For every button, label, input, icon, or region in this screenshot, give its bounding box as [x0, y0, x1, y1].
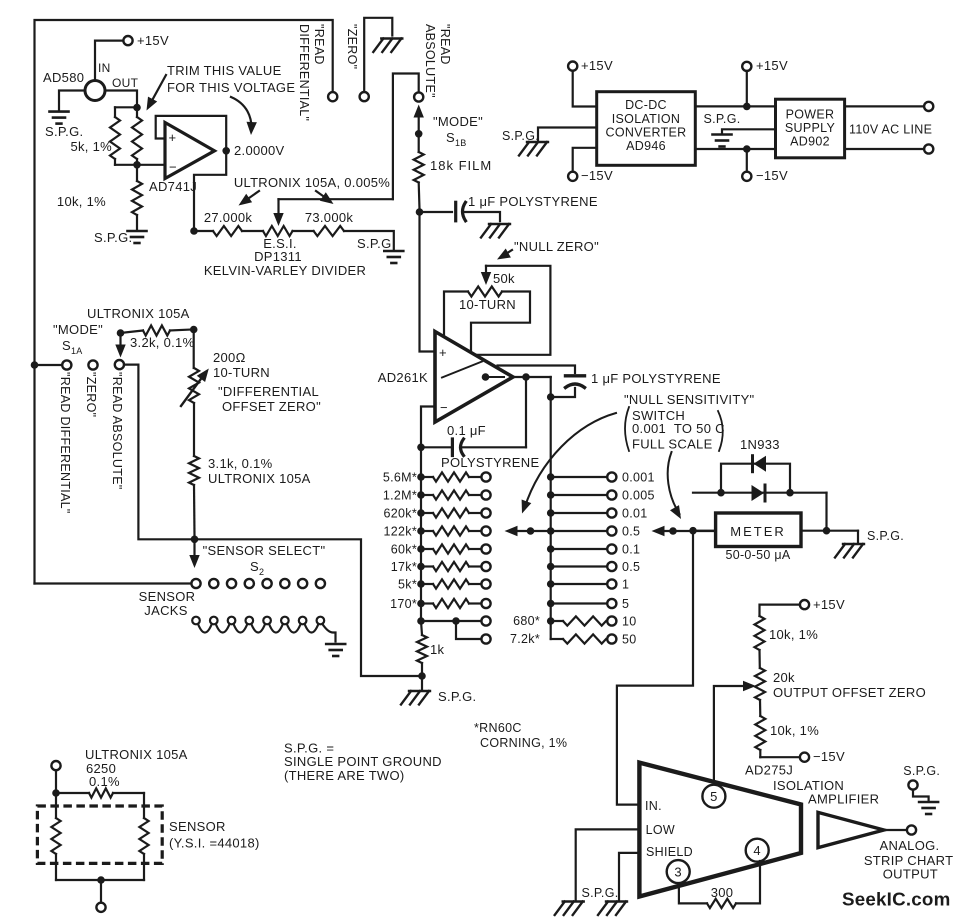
label READ ABSOLUTE vertical (top) — [423, 24, 452, 98]
svg-text:−15V: −15V — [581, 168, 613, 183]
svg-text:OUTPUT OFFSET ZERO: OUTPUT OFFSET ZERO — [773, 685, 926, 700]
ground chassis (top ZERO) — [373, 39, 402, 53]
svg-text:OUTPUT: OUTPUT — [883, 867, 938, 882]
label 1 — [622, 578, 629, 592]
svg-text:200Ω: 200Ω — [213, 350, 246, 365]
svg-text:DIFFERENTIAL": DIFFERENTIAL" — [297, 24, 311, 121]
label DP1311 — [254, 249, 302, 264]
wire +15V to AD580 IN — [95, 41, 123, 81]
label 5k 1% — [70, 139, 112, 154]
svg-text:"NULL ZERO": "NULL ZERO" — [514, 239, 599, 254]
label 620k* — [384, 507, 417, 521]
svg-text:(THERE ARE TWO): (THERE ARE TWO) — [284, 768, 405, 783]
svg-text:1: 1 — [622, 578, 629, 592]
wire AD741J inverting input — [137, 164, 165, 166]
node diode left — [717, 489, 725, 497]
wire AD261K -input — [421, 407, 435, 445]
svg-text:POWER: POWER — [786, 108, 835, 122]
svg-text:0.1 μF: 0.1 μF — [447, 423, 486, 438]
svg-text:5.6M*: 5.6M* — [383, 471, 417, 485]
wire 300 to pin4 — [736, 861, 760, 903]
resistor 300 — [707, 899, 736, 908]
wire cap to bus — [553, 388, 575, 397]
resistor 620k* ladder row — [417, 508, 490, 517]
label 110V AC LINE — [849, 123, 932, 137]
svg-text:0.1: 0.1 — [622, 543, 640, 557]
switch contact 0.5 row — [547, 526, 617, 535]
svg-text:"NULL SENSITIVITY": "NULL SENSITIVITY" — [624, 392, 755, 407]
svg-text:0.001 TO 50 C: 0.001 TO 50 C — [632, 421, 725, 436]
wire -input bus to 0.1uF — [417, 444, 451, 452]
ground chassis (SHIELD S.P.G.) — [598, 902, 627, 916]
svg-text:18k FILM: 18k FILM — [430, 158, 492, 173]
wire S1B node to AD261K +input — [420, 212, 434, 352]
ground S.P.G. (10k) — [128, 231, 147, 243]
wire output top branch — [498, 366, 576, 374]
svg-text:3: 3 — [674, 865, 682, 880]
node ladder bottom — [417, 617, 425, 625]
label 300 — [711, 885, 734, 900]
note single point ground — [284, 741, 442, 783]
label +15V (DC-DC) — [581, 58, 613, 73]
label 122k* — [384, 525, 417, 539]
annotation arrow to 73k — [316, 191, 334, 204]
label S.P.G. (iso-amp) — [582, 886, 619, 900]
switch contact 0.1 row — [547, 544, 617, 553]
wire AD580 to ground — [59, 91, 85, 111]
annotation curve to ladder wiper — [522, 413, 616, 514]
svg-text:AD741J: AD741J — [149, 179, 197, 194]
label ULTRONIX 105A 0.005% — [234, 175, 390, 190]
label AD741J — [149, 179, 197, 194]
svg-text:122k*: 122k* — [384, 525, 417, 539]
switch contact 0.001 row — [547, 472, 617, 481]
wire output down to 0.1uF — [525, 377, 527, 447]
svg-text:"MODE": "MODE" — [433, 114, 483, 129]
svg-text:"READ DIFFERENTIAL": "READ DIFFERENTIAL" — [58, 372, 72, 514]
wire output to terminal — [884, 829, 907, 831]
svg-text:OFFSET ZERO": OFFSET ZERO" — [222, 399, 321, 414]
svg-text:20k: 20k — [773, 670, 795, 685]
svg-text:"ZERO": "ZERO" — [345, 24, 359, 69]
node AD261K output — [522, 373, 530, 381]
svg-text:10: 10 — [622, 615, 637, 629]
svg-text:"MODE": "MODE" — [53, 322, 103, 337]
svg-text:1 μF POLYSTYRENE: 1 μF POLYSTYRENE — [468, 194, 598, 209]
switch S1 contact READ ABSOLUTE (top) — [414, 92, 423, 101]
svg-text:S: S — [446, 130, 455, 145]
label 10 — [622, 615, 637, 629]
meter M1 50-0-50uA — [716, 513, 801, 547]
resistor 10k 1% (upper) — [755, 616, 765, 668]
label 10-TURN — [459, 297, 516, 312]
terminal sensor top — [51, 761, 60, 770]
resistor 1.2M* ladder row — [417, 490, 490, 499]
label MODE S1B — [433, 114, 483, 148]
potentiometer 50k 10-TURN — [468, 287, 502, 297]
label S.P.G. (1k) — [438, 689, 476, 704]
svg-text:+15V: +15V — [813, 597, 845, 612]
label ISOLATION — [773, 778, 844, 793]
label 3.2k 0.1% — [130, 335, 195, 350]
node -15 rail — [743, 145, 751, 153]
svg-text:SeekIC.com: SeekIC.com — [842, 889, 950, 910]
ground S.P.G. (between boxes) — [713, 135, 732, 147]
resistor 170* ladder row — [417, 599, 490, 608]
label DIFFERENTIAL OFFSET ZERO — [218, 384, 321, 414]
terminal -15V (DC-DC) — [568, 172, 577, 181]
resistor 17k* ladder row — [417, 562, 490, 571]
label OUTPUT OFFSET ZERO — [773, 685, 926, 700]
label S.P.G. (output) — [903, 764, 940, 778]
resistor 7.2k (50 range) — [551, 634, 617, 643]
svg-text:JACKS: JACKS — [144, 603, 187, 618]
sensor right leg — [139, 793, 148, 880]
label 0.5 — [622, 525, 640, 539]
svg-text:5: 5 — [710, 789, 718, 804]
wire -15V into DC-DC — [573, 148, 597, 172]
svg-text:5: 5 — [622, 597, 629, 611]
label 1.2M* — [383, 489, 417, 503]
node 1k bottom — [418, 672, 426, 680]
label SHIELD — [646, 845, 693, 859]
resistor 5k* ladder row — [417, 579, 490, 588]
svg-text:"DIFFERENTIAL: "DIFFERENTIAL — [218, 384, 319, 399]
label 0.1 — [622, 543, 640, 557]
svg-text:ISOLATION: ISOLATION — [612, 112, 680, 126]
wire +15V supply stub — [746, 71, 748, 107]
svg-text:3.2k, 0.1%: 3.2k, 0.1% — [130, 335, 195, 350]
label 0.001 — [622, 471, 655, 485]
svg-text:1A: 1A — [71, 346, 83, 356]
resistor 18k FILM — [414, 134, 424, 209]
svg-text:−15V: −15V — [813, 749, 845, 764]
svg-text:S: S — [250, 559, 259, 574]
switch contact 5 row — [547, 599, 617, 608]
svg-text:+15V: +15V — [756, 58, 788, 73]
svg-text:ULTRONIX 105A: ULTRONIX 105A — [208, 471, 311, 486]
label 5 — [622, 597, 629, 611]
label AD275J — [745, 763, 793, 778]
label ANALOG STRIP CHART OUTPUT — [864, 838, 954, 882]
label READ DIFFERENTIAL vertical (top) — [297, 24, 326, 121]
label 0.1uF — [447, 423, 486, 438]
svg-text:S: S — [62, 338, 71, 353]
op-amp U2 AD261K — [435, 332, 513, 423]
label S.P.G. (10k) — [94, 230, 132, 245]
svg-text:S.P.G: S.P.G — [357, 236, 392, 251]
terminal S.P.G. (output) — [908, 780, 917, 789]
svg-text:*RN60C: *RN60C — [474, 721, 522, 735]
wire 0.1uF to output vertical — [463, 446, 526, 448]
ground chassis (1k S.P.G.) — [401, 691, 430, 705]
svg-text:SHIELD: SHIELD — [646, 845, 693, 859]
terminal sensor bottom — [96, 903, 105, 912]
wire 27k to divider — [242, 230, 263, 232]
wire 50k right end to offset pin — [471, 292, 530, 352]
resistor 680 (10 range) — [547, 616, 617, 625]
label 27.000k — [204, 210, 253, 225]
resistor 5k 1% — [110, 107, 120, 165]
switch S1A contact READ DIFFERENTIAL — [62, 360, 71, 369]
sensor dashed box — [37, 806, 162, 863]
svg-text:3.1k, 0.1%: 3.1k, 0.1% — [208, 456, 273, 471]
svg-text:2.0000V: 2.0000V — [234, 143, 285, 158]
svg-text:60k*: 60k* — [391, 543, 417, 557]
wiper arrow sensitivity bank — [652, 526, 715, 536]
node AD741J output — [222, 147, 230, 155]
svg-text:IN.: IN. — [645, 799, 662, 813]
svg-text:0.1%: 0.1% — [89, 774, 120, 789]
switch contact 0.01 row — [547, 508, 617, 517]
wire frame to S1A contact 1 — [35, 364, 63, 366]
svg-text:0.5: 0.5 — [622, 525, 640, 539]
svg-text:+: + — [169, 130, 177, 145]
wire KVD wiper run — [279, 198, 393, 200]
svg-text:S.P.G.: S.P.G. — [582, 886, 619, 900]
wire S2 run to 1k ground — [195, 539, 420, 676]
voltage reference AD580 — [85, 81, 105, 101]
wire READ ABSOLUTE contact to KVD wiper run — [393, 74, 419, 200]
svg-text:S.P.G.: S.P.G. — [502, 129, 539, 143]
wire pin5 to 20k wiper — [714, 686, 749, 785]
label 200ohm 10-TURN — [213, 350, 270, 380]
label S.P.G. (AD580) — [45, 124, 83, 139]
svg-text:ULTRONIX 105A: ULTRONIX 105A — [87, 306, 190, 321]
label +15V (supply) — [756, 58, 788, 73]
svg-text:DP1311: DP1311 — [254, 249, 302, 264]
ground S.P.G. (KVD) — [384, 251, 403, 263]
wire SPG into DC-DC — [538, 128, 597, 141]
svg-text:50-0-50 μA: 50-0-50 μA — [725, 548, 790, 562]
diode 1N933 upper (points left) — [753, 456, 767, 472]
svg-text:"ZERO": "ZERO" — [84, 372, 98, 417]
ground S.P.G. (output) — [919, 802, 938, 814]
svg-text:0.5: 0.5 — [622, 560, 640, 574]
wire AC line hot — [845, 105, 924, 107]
node sensor top-left — [52, 789, 60, 797]
label 10k 1% — [57, 194, 106, 209]
annotation TRIM THIS VALUE text — [167, 63, 295, 95]
label RN60C CORNING — [474, 721, 567, 750]
svg-text:1.2M*: 1.2M* — [383, 489, 417, 503]
label AD261K — [378, 370, 428, 385]
wire meter node to iso-amp IN — [617, 531, 693, 805]
svg-text:110V AC LINE: 110V AC LINE — [849, 123, 932, 137]
label 1N933 — [740, 437, 780, 452]
svg-text:"SENSOR SELECT": "SENSOR SELECT" — [203, 543, 326, 558]
wire +15V to 10k — [760, 605, 801, 616]
label 170* — [390, 597, 417, 611]
label SENSOR SELECT — [203, 543, 326, 558]
svg-text:ULTRONIX 105A, 0.005%: ULTRONIX 105A, 0.005% — [234, 175, 390, 190]
svg-text:10k, 1%: 10k, 1% — [769, 627, 818, 642]
label 50k — [493, 271, 515, 286]
output amplifier triangle — [818, 812, 884, 847]
svg-text:SUPPLY: SUPPLY — [785, 121, 836, 135]
wire AC line neutral — [845, 148, 924, 150]
svg-text:SINGLE POINT GROUND: SINGLE POINT GROUND — [284, 754, 442, 769]
svg-text:S.P.G.: S.P.G. — [438, 689, 476, 704]
wire sensor bottom lead — [100, 880, 102, 903]
diode 1N933 lower (points right) — [752, 485, 766, 501]
wire output to bus — [513, 376, 551, 378]
wire AD741J feedback loop — [156, 116, 227, 148]
svg-text:KELVIN-VARLEY DIVIDER: KELVIN-VARLEY DIVIDER — [204, 263, 366, 278]
chopper line AD261K — [442, 362, 504, 381]
label LOW — [646, 823, 675, 837]
label 0.01 — [622, 507, 648, 521]
label 50-0-50 uA — [725, 548, 790, 562]
resistor 10k 1% — [132, 165, 142, 229]
label 6250 — [86, 761, 116, 776]
jack spare bottom — [481, 634, 490, 643]
svg-text:5k, 1%: 5k, 1% — [70, 139, 112, 154]
node 3.2k left — [117, 329, 125, 337]
label S.P.G (KVD) — [357, 236, 392, 251]
label 0.5 — [622, 560, 640, 574]
wiper arrow 50k — [481, 266, 491, 285]
node 18k / 1uF junction — [416, 208, 424, 216]
wiper arrow 20k — [743, 681, 756, 691]
svg-text:AD946: AD946 — [626, 139, 666, 153]
svg-text:50: 50 — [622, 633, 637, 647]
svg-text:AD580: AD580 — [43, 70, 84, 85]
svg-text:TRIM THIS VALUE: TRIM THIS VALUE — [167, 63, 282, 78]
label 10k 1% (upper) — [769, 627, 818, 642]
resistor 27.000k — [213, 226, 242, 236]
ground chassis (1uF input) — [481, 224, 510, 238]
label ZERO vertical (S1A) — [84, 372, 98, 417]
svg-text:300: 300 — [711, 885, 734, 900]
label 73.000k — [305, 210, 354, 225]
label 1uF POLYSTYRENE (output) — [591, 371, 721, 386]
label SENSOR — [169, 819, 226, 834]
svg-text:10-TURN: 10-TURN — [213, 365, 270, 380]
label -15V (DC-DC) — [581, 168, 613, 183]
svg-text:ABSOLUTE": ABSOLUTE" — [423, 24, 437, 98]
potentiometer 20k OUTPUT OFFSET ZERO — [755, 668, 765, 716]
wire cap to ground — [464, 212, 500, 221]
svg-text:680*: 680* — [513, 614, 540, 628]
svg-text:DC-DC: DC-DC — [625, 98, 667, 112]
label ULTRONIX 105A (6250) — [85, 747, 188, 762]
node diode right — [786, 489, 794, 497]
node +15 rail — [743, 103, 751, 111]
wire diode upper rail — [721, 464, 790, 493]
svg-text:"READ ABSOLUTE": "READ ABSOLUTE" — [110, 372, 124, 490]
switch S2 jack row — [191, 579, 325, 588]
wire trim bottom rail — [115, 164, 137, 166]
svg-text:IN: IN — [98, 61, 111, 75]
svg-text:ULTRONIX 105A: ULTRONIX 105A — [85, 747, 188, 762]
pin 3 circle — [667, 860, 690, 883]
svg-text:−: − — [169, 160, 177, 175]
label 3.1k 0.1% — [208, 456, 273, 471]
svg-text:OUT: OUT — [112, 76, 139, 90]
label +15V (AD580) — [137, 33, 169, 48]
svg-text:2: 2 — [259, 567, 264, 577]
wire to -15V — [760, 756, 800, 758]
wire AD741J output to KVD node — [194, 151, 226, 228]
op-amp U1 AD741J — [165, 123, 215, 179]
svg-text:SENSOR: SENSOR — [169, 819, 226, 834]
wire meter input — [689, 527, 715, 535]
wire ladder left bus — [420, 447, 422, 621]
wire output SPG ground — [913, 790, 929, 801]
svg-text:(Y.S.I. =44018): (Y.S.I. =44018) — [169, 836, 260, 851]
svg-text:FOR THIS VOLTAGE: FOR THIS VOLTAGE — [167, 80, 295, 95]
svg-text:−: − — [440, 400, 448, 415]
node sensor bottom — [97, 876, 105, 884]
resistor 3.2k 0.1% — [121, 326, 193, 336]
svg-text:ANALOG.: ANALOG. — [880, 838, 940, 853]
svg-text:10k, 1%: 10k, 1% — [57, 194, 106, 209]
node trim top — [133, 104, 141, 112]
label AMPLIFIER — [808, 792, 879, 807]
capacitor 1uF polystyrene (input) — [456, 202, 466, 221]
label 1k — [430, 642, 445, 657]
watermark SeekIC.com — [842, 889, 950, 910]
resistor 73.000k — [314, 226, 344, 236]
node frame to S1A — [31, 361, 39, 369]
svg-text:S.P.G.: S.P.G. — [94, 230, 132, 245]
label 17k* — [391, 560, 417, 574]
svg-text:620k*: 620k* — [384, 507, 417, 521]
svg-text:CONVERTER: CONVERTER — [606, 126, 687, 140]
wire 1k ground stub — [421, 676, 423, 689]
wire supply SPG — [722, 129, 776, 133]
wire 50k wiper run — [476, 266, 551, 355]
label READ DIFFERENTIAL vertical (S1A) — [58, 372, 72, 514]
node 3.2k right — [190, 326, 198, 334]
wire KVD left lead — [194, 230, 213, 232]
label 20k — [773, 670, 795, 685]
terminal analog output — [907, 825, 916, 834]
label ULTRONIX 105A (3.1k) — [208, 471, 311, 486]
label 680* — [513, 614, 540, 628]
wire sensor top lead — [55, 770, 57, 793]
ground chassis (LOW S.P.G.) — [555, 902, 584, 916]
annotation arrow NULL ZERO — [497, 249, 512, 260]
label YSI 44018 — [169, 836, 260, 851]
wire sensor bottom rail — [56, 879, 144, 881]
resistor 5.6M* ladder row — [417, 472, 490, 481]
svg-text:"READ: "READ — [312, 24, 326, 65]
wiper arrow ladder bank — [505, 526, 551, 536]
svg-text:S.P.G.: S.P.G. — [703, 112, 740, 126]
svg-text:73.000k: 73.000k — [305, 210, 354, 225]
terminal +15V (supply) — [742, 62, 751, 71]
svg-text:5k*: 5k* — [398, 578, 417, 592]
ground chassis (meter S.P.G.) — [835, 544, 864, 558]
resistor 10k 1% (lower) — [755, 716, 765, 757]
switch S1A contact READ ABSOLUTE — [115, 360, 124, 369]
node sensor select wiper — [191, 536, 199, 544]
terminal AC line neutral — [924, 144, 933, 153]
terminal +15V (DC-DC) — [568, 62, 577, 71]
svg-text:170*: 170* — [390, 597, 417, 611]
resistor trim (TRIM THIS VALUE) — [132, 109, 142, 165]
wire diode rail to meter node — [825, 493, 827, 531]
resistor ULTRONIX 6250 0.1% — [56, 788, 144, 797]
wiper arrow S1B — [414, 105, 424, 134]
label +15V (offset) — [813, 597, 845, 612]
wire divider to 73k — [293, 230, 314, 232]
svg-text:+: + — [439, 345, 447, 360]
node trim bottom — [133, 161, 141, 169]
svg-text:50k: 50k — [493, 271, 515, 286]
